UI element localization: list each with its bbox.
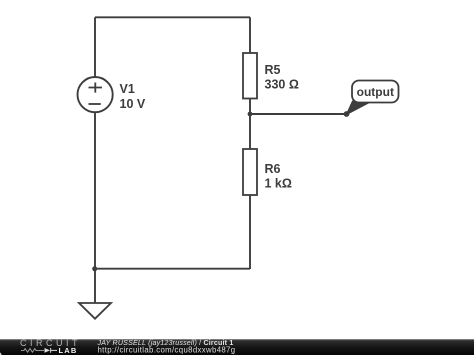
wire top from V1 to R5 branch [95, 16, 250, 18]
svg-text:1 kΩ: 1 kΩ [265, 177, 292, 191]
svg-text:LAB: LAB [59, 346, 78, 355]
resistor R5 [243, 53, 257, 99]
svg-text:330 Ω: 330 Ω [265, 78, 299, 92]
wire left vertical lower (V1 bottom to ground node) [94, 113, 96, 270]
svg-text:http://circuitlab.com/cqu8dxxw: http://circuitlab.com/cqu8dxxwb487g [98, 345, 236, 354]
wire left vertical upper (V1 top to top wire) [94, 17, 96, 77]
wire right vertical (top wire to R5) [249, 17, 251, 53]
svg-text:V1: V1 [120, 82, 135, 96]
wire bottom from ground node to R6 [95, 268, 250, 270]
wire between R5 and R6 [249, 99, 251, 150]
svg-text:R6: R6 [265, 162, 281, 176]
label R5 value 330 Ohm [265, 63, 299, 92]
output flag [346, 81, 398, 115]
svg-text:output: output [357, 85, 394, 99]
footer logo CIRCUITLAB [20, 338, 81, 355]
label V1 value 10 V [120, 82, 146, 111]
footer corner mark [0, 353, 2, 355]
label R6 value 1 kOhm [265, 162, 292, 191]
resistor R6 [243, 149, 257, 195]
wire junction to output flag [250, 113, 347, 115]
node output terminal [344, 111, 350, 117]
ground [79, 269, 111, 319]
svg-text:10 V: 10 V [120, 97, 146, 111]
footer watermark bar [0, 339, 474, 355]
wire R6 bottom to bottom wire [249, 195, 251, 269]
node output junction [248, 112, 253, 117]
svg-text:R5: R5 [265, 63, 281, 77]
footer credit text [97, 339, 236, 354]
node ground junction [92, 266, 97, 271]
voltage source V1 [78, 77, 113, 112]
